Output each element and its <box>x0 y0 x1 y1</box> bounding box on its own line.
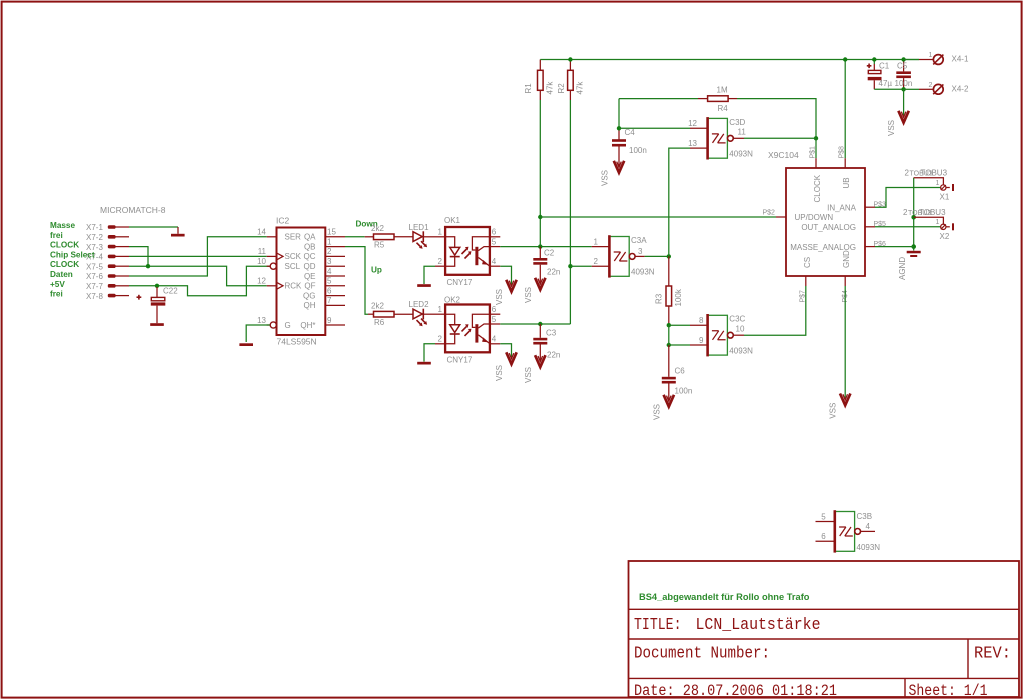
LED1 <box>409 223 436 249</box>
pin P$4 GND <box>844 276 846 286</box>
pin X7-8 <box>86 292 129 301</box>
right pins 15,1..7,9 <box>325 236 345 238</box>
svg-text:C3D: C3D <box>729 118 745 127</box>
svg-text:13: 13 <box>257 316 266 325</box>
junction X2 sleeve <box>911 215 916 220</box>
svg-text:P$7: P$7 <box>799 290 806 303</box>
supply VSS at C4 <box>601 161 625 186</box>
supply VSS at C2 <box>524 278 546 303</box>
ground at OK2 pin2 <box>417 344 435 365</box>
svg-text:4093N: 4093N <box>729 347 753 356</box>
pin X7-5 <box>86 262 129 271</box>
svg-text:5: 5 <box>492 315 497 324</box>
wire C3A pin2 <box>570 265 591 267</box>
svg-text:QD: QD <box>304 262 316 271</box>
pin P$3 IN_ANA <box>865 206 875 208</box>
svg-text:OK2: OK2 <box>444 295 461 304</box>
ground at IC2 pin13 <box>239 343 253 346</box>
svg-text:P$2: P$2 <box>763 209 776 216</box>
svg-text:Chip Select: Chip Select <box>50 250 95 259</box>
internal LED <box>445 237 455 248</box>
svg-text:X9C104: X9C104 <box>768 150 799 160</box>
svg-text:X2: X2 <box>940 232 950 241</box>
svg-text:P$1: P$1 <box>810 146 817 159</box>
svg-text:QF: QF <box>304 282 315 291</box>
svg-text:3: 3 <box>638 247 643 256</box>
svg-text:TOBU3: TOBU3 <box>921 169 948 178</box>
nand gate C3B 4093N <box>816 510 881 552</box>
svg-text:QC: QC <box>304 252 316 261</box>
svg-text:1: 1 <box>936 219 940 226</box>
svg-text:10: 10 <box>257 257 266 266</box>
ground at X7-1 <box>171 227 185 237</box>
resistor R5 2k2 <box>365 224 413 250</box>
svg-text:VSS: VSS <box>829 403 838 419</box>
svg-text:CS: CS <box>803 257 812 268</box>
ground at C22 <box>150 323 164 326</box>
svg-text:REV:: REV: <box>974 644 1011 663</box>
svg-text:VSS: VSS <box>652 404 661 420</box>
nand gate C3D 4093N <box>688 117 753 159</box>
svg-text:Date: 28.07.2006 01:18:21: Date: 28.07.2006 01:18:21 <box>634 682 837 700</box>
svg-text:1: 1 <box>936 180 940 187</box>
svg-text:10: 10 <box>736 325 745 334</box>
capacitor C2 22n <box>533 247 560 285</box>
svg-text:11: 11 <box>258 247 267 256</box>
wire OK1 pin4 to VSS <box>500 266 511 286</box>
svg-text:12: 12 <box>257 277 266 286</box>
svg-text:R4: R4 <box>718 104 729 113</box>
wire Masse X7-1 to ground <box>129 226 178 228</box>
svg-text:6: 6 <box>821 532 826 541</box>
capacitor C3 22n <box>533 324 560 362</box>
svg-text:100n: 100n <box>895 79 913 88</box>
svg-text:MICROMATCH-8: MICROMATCH-8 <box>100 205 166 215</box>
svg-text:BS4_abgewandelt für Rollo ohne: BS4_abgewandelt für Rollo ohne Trafo <box>639 592 810 602</box>
svg-text:74LS595N: 74LS595N <box>277 337 317 347</box>
svg-text:VSS: VSS <box>887 120 896 136</box>
svg-text:X7-7: X7-7 <box>86 282 103 291</box>
svg-text:QA: QA <box>304 233 316 242</box>
svg-text:X4-2: X4-2 <box>952 85 969 94</box>
svg-text:C4: C4 <box>625 128 636 137</box>
svg-text:1: 1 <box>438 305 443 314</box>
capacitor C5 100n <box>895 60 913 90</box>
LED2 <box>409 300 436 326</box>
supply VSS at X4 <box>887 111 909 136</box>
junction C22 tap <box>155 284 159 288</box>
svg-text:QE: QE <box>304 272 316 281</box>
wire R3 top lead <box>668 256 670 286</box>
svg-text:X7-2: X7-2 <box>86 233 103 242</box>
connector pin X4-1 <box>919 52 969 64</box>
svg-text:22n: 22n <box>547 351 560 360</box>
svg-text:47µ: 47µ <box>879 79 893 88</box>
svg-text:GND: GND <box>842 250 851 268</box>
svg-text:frei: frei <box>50 231 63 240</box>
junction R2 top <box>568 57 572 61</box>
junction C5 top <box>901 57 905 61</box>
pin 12 RCK <box>267 285 277 287</box>
svg-text:C2: C2 <box>544 248 555 257</box>
supply VSS at P$4 <box>829 394 851 419</box>
wire +5V X7-7 to IC2 pin 10 <box>129 266 270 296</box>
svg-text:R3: R3 <box>655 293 664 304</box>
wire OK1 pin5 to C3A pin1 <box>500 246 591 248</box>
pin P$7 CS <box>805 276 807 286</box>
wire IC2 pin13 to ground <box>246 325 270 342</box>
svg-text:X7-6: X7-6 <box>86 272 103 281</box>
resistor R6 2k2 <box>371 301 413 327</box>
junction C4/pin12 <box>617 126 621 130</box>
svg-text:R6: R6 <box>374 318 385 327</box>
wire pin12 C3D <box>619 127 690 129</box>
wire R2 net vertical <box>569 100 571 324</box>
pin X7-4 <box>86 253 129 262</box>
pin P$6 MASSE_ANALOG <box>865 246 875 248</box>
internal LED <box>445 314 455 325</box>
svg-text:QH: QH <box>304 301 316 310</box>
svg-text:2: 2 <box>438 335 443 344</box>
svg-text:8: 8 <box>699 316 704 325</box>
svg-text:IN_ANA: IN_ANA <box>827 203 857 212</box>
svg-text:OUT_ANALOG: OUT_ANALOG <box>801 223 856 232</box>
pin 13 G <box>267 324 271 326</box>
optocoupler OK2 CNY17 <box>435 295 500 364</box>
svg-text:4: 4 <box>492 335 497 344</box>
svg-text:100k: 100k <box>674 288 683 306</box>
connector X1 TOBU3 <box>905 169 955 202</box>
svg-text:7: 7 <box>327 296 332 305</box>
wire QA to R5 <box>345 236 365 238</box>
svg-text:LED1: LED1 <box>409 223 430 232</box>
svg-text:LED2: LED2 <box>409 300 430 309</box>
pin X7-2 <box>86 233 129 242</box>
wire C3A output <box>645 255 669 257</box>
wire C4 to R4 <box>619 98 698 100</box>
junction C3 top <box>538 322 542 326</box>
svg-text:4: 4 <box>492 257 497 266</box>
resistor R1 47k <box>524 60 555 101</box>
svg-text:VSS: VSS <box>601 170 610 186</box>
svg-text:VSS: VSS <box>524 287 533 303</box>
resistor R2 47k <box>557 60 585 101</box>
photon arrows <box>462 249 467 254</box>
capacitor C6 100n <box>662 345 692 401</box>
svg-text:C3C: C3C <box>729 315 745 324</box>
junction P$1 node <box>814 136 818 140</box>
pin P$2 UP/DOWN <box>776 216 786 218</box>
svg-text:CLOCK: CLOCK <box>50 241 79 250</box>
junction C3A out <box>667 254 671 258</box>
pin X7-1 <box>86 223 129 232</box>
capacitor C22 <box>137 286 179 323</box>
wire AGND vertical <box>913 178 915 251</box>
nand gate C3C 4093N <box>690 314 753 356</box>
pin X7-7 <box>86 282 129 291</box>
wire R1 net vertical <box>539 100 541 247</box>
svg-text:1: 1 <box>594 237 599 246</box>
svg-text:UP/DOWN: UP/DOWN <box>795 213 834 222</box>
svg-text:G: G <box>285 321 291 330</box>
connector pin X4-2 <box>919 82 969 94</box>
svg-text:1M: 1M <box>717 86 728 95</box>
resistor R3 100k <box>655 286 684 325</box>
svg-text:QH*: QH* <box>300 321 315 330</box>
svg-text:13: 13 <box>688 139 697 148</box>
svg-text:TOBU3: TOBU3 <box>919 208 946 217</box>
svg-text:2: 2 <box>327 247 332 256</box>
svg-text:Sheet: 1/1: Sheet: 1/1 <box>909 682 988 700</box>
svg-text:SCK: SCK <box>285 252 302 261</box>
svg-text:X1: X1 <box>940 193 950 202</box>
svg-text:3: 3 <box>327 257 332 266</box>
svg-text:frei: frei <box>50 290 63 299</box>
wire C3C pin8 <box>669 324 690 326</box>
svg-text:X4-1: X4-1 <box>952 55 969 64</box>
svg-text:6: 6 <box>327 286 332 295</box>
IC2 74LS595N <box>257 216 345 347</box>
svg-text:C1: C1 <box>879 62 890 71</box>
svg-text:4093N: 4093N <box>631 268 655 277</box>
junction X7-3/X7-5 <box>146 264 150 268</box>
svg-text:11: 11 <box>738 128 747 137</box>
svg-text:R1: R1 <box>524 83 533 94</box>
pin P$1 CLOCK <box>815 158 817 168</box>
photon arrows <box>462 326 467 331</box>
svg-text:AGND: AGND <box>898 257 907 280</box>
svg-text:RCK: RCK <box>285 282 303 291</box>
wire C3C output to P$7 <box>744 286 806 335</box>
wire P$5 to X2 <box>875 226 941 228</box>
connector X2 TOBU3 <box>903 208 954 241</box>
svg-text:C3A: C3A <box>631 236 647 245</box>
junction C3C pin8 <box>667 323 671 327</box>
wire R4 to P$1 node <box>737 99 816 139</box>
wire R3 to C6 node <box>668 325 670 345</box>
svg-text:4: 4 <box>866 522 871 531</box>
junction C1 top <box>872 57 876 61</box>
connector X7 MICROMATCH-8 <box>86 205 166 301</box>
supply VSS at OK1 pin4 <box>495 280 517 305</box>
wire P$3 to X1 <box>875 188 941 208</box>
svg-text:22n: 22n <box>547 268 560 277</box>
ground at OK1 pin2 <box>417 266 435 287</box>
svg-text:R5: R5 <box>374 241 385 250</box>
capacitor C1 47u polarized <box>867 60 893 90</box>
wire P$1 drop <box>815 138 817 158</box>
capacitor C4 100n <box>612 99 647 167</box>
svg-text:R2: R2 <box>557 83 566 94</box>
wire Chip Select X7-4 to IC2 pin 11 <box>129 255 267 257</box>
wire Daten X7-6 to IC2 pin 14 <box>129 237 267 276</box>
svg-text:6: 6 <box>492 305 497 314</box>
junction P$2 tap <box>538 215 542 219</box>
svg-text:2k2: 2k2 <box>371 224 384 233</box>
wire Up: R6 feed <box>368 313 374 315</box>
junction C3A pin2 <box>568 264 572 268</box>
svg-text:5: 5 <box>492 237 497 246</box>
svg-text:100n: 100n <box>675 387 693 396</box>
svg-text:Up: Up <box>371 266 382 275</box>
pin X7-3 <box>86 243 129 252</box>
wire P$8 to supply rail <box>844 60 846 159</box>
svg-text:QG: QG <box>303 291 315 300</box>
svg-text:X7-8: X7-8 <box>86 292 103 301</box>
wire top supply rail <box>540 59 919 61</box>
svg-text:Document Number:: Document Number: <box>634 644 770 663</box>
svg-text:TITLE:: TITLE: <box>634 616 682 635</box>
svg-text:2: 2 <box>929 82 933 89</box>
svg-text:+5V: +5V <box>50 280 65 289</box>
svg-text:LCN_Lautstärke: LCN_Lautstärke <box>696 616 821 635</box>
svg-text:VSS: VSS <box>495 365 504 381</box>
svg-text:2k2: 2k2 <box>371 301 384 310</box>
svg-text:9: 9 <box>327 316 332 325</box>
resistor R4 1M <box>698 86 737 113</box>
svg-text:UB: UB <box>842 177 851 188</box>
svg-text:C3B: C3B <box>857 512 873 521</box>
junction C2 top <box>538 244 542 248</box>
wire QB down to R6 <box>345 247 368 315</box>
svg-text:47k: 47k <box>546 81 555 95</box>
phototransistor <box>475 324 478 342</box>
svg-text:47k: 47k <box>576 81 585 95</box>
svg-text:CLOCK: CLOCK <box>50 260 79 269</box>
svg-text:1: 1 <box>438 228 443 237</box>
svg-text:C22: C22 <box>163 286 178 295</box>
svg-text:4: 4 <box>327 267 332 276</box>
nand gate C3A 4093N <box>592 235 655 277</box>
svg-text:IC2: IC2 <box>276 216 290 226</box>
svg-text:15: 15 <box>327 228 336 237</box>
optocoupler OK1 CNY17 <box>435 216 500 287</box>
svg-text:CNY17: CNY17 <box>447 356 473 365</box>
wire CLOCK X7-3 down to X7-5 <box>129 247 148 267</box>
svg-text:VSS: VSS <box>524 367 533 383</box>
supply VSS at C3 <box>524 355 546 383</box>
wire C3A out up to C3D pin13 <box>669 148 690 256</box>
svg-text:OK1: OK1 <box>444 216 461 225</box>
phototransistor <box>475 247 478 265</box>
svg-text:12: 12 <box>688 119 697 128</box>
IC X9C104 digital potentiometer <box>763 146 887 303</box>
pin 11 SCK <box>267 255 277 257</box>
svg-text:6: 6 <box>492 228 497 237</box>
wire CLOCK X7-5 to IC2 pin 12 <box>129 266 267 286</box>
pin 14 SER <box>267 236 277 238</box>
ground AGND <box>898 251 921 280</box>
svg-text:1: 1 <box>327 237 332 246</box>
wire to X4-2 <box>904 88 919 90</box>
pin X7-6 <box>86 272 129 281</box>
svg-text:14: 14 <box>257 228 266 237</box>
svg-text:X7-5: X7-5 <box>86 262 103 271</box>
svg-text:100n: 100n <box>629 146 647 155</box>
svg-text:CNY17: CNY17 <box>447 278 473 287</box>
svg-text:5: 5 <box>821 512 826 521</box>
wire C1 bottom to X4-2 node <box>874 88 903 90</box>
svg-text:1: 1 <box>929 52 933 59</box>
svg-text:4093N: 4093N <box>857 543 881 552</box>
svg-text:5: 5 <box>327 277 332 286</box>
wire OK2 pin4 to VSS <box>500 344 511 359</box>
junction X4-2 node <box>901 87 905 91</box>
svg-text:Masse: Masse <box>50 221 75 230</box>
junction C3C pin9 <box>667 343 671 347</box>
wire P$4 to VSS <box>844 286 846 400</box>
wire P$6 <box>875 246 914 248</box>
svg-text:VSS: VSS <box>495 289 504 305</box>
svg-text:4093N: 4093N <box>729 150 753 159</box>
svg-text:C6: C6 <box>675 367 686 376</box>
supply VSS at OK2 pin4 <box>495 352 517 381</box>
junction P$8 rail <box>843 57 847 61</box>
wire C3C pin9 <box>669 344 690 346</box>
svg-text:C5: C5 <box>897 62 908 71</box>
wire OK2 pin5 to R2 <box>500 323 570 325</box>
svg-text:X7-1: X7-1 <box>86 223 103 232</box>
svg-text:SER: SER <box>285 233 302 242</box>
svg-text:Daten: Daten <box>50 270 73 279</box>
svg-text:QB: QB <box>304 242 316 251</box>
svg-text:C3: C3 <box>546 328 557 337</box>
wire to X4-1 <box>904 59 919 61</box>
svg-text:2: 2 <box>438 257 443 266</box>
title block frame <box>629 561 1020 697</box>
svg-text:9: 9 <box>699 336 704 345</box>
wire X4-2 node to VSS <box>903 89 905 117</box>
svg-text:CLOCK: CLOCK <box>813 174 822 202</box>
pin P$8 UB <box>844 158 846 168</box>
wire P$2 UP/DOWN <box>540 216 776 218</box>
supply VSS at C6 <box>652 395 674 420</box>
pin 10 SCL <box>267 265 271 267</box>
pin P$5 OUT_ANALOG <box>865 226 875 228</box>
svg-text:SCL: SCL <box>285 262 301 271</box>
wire C3D output to P$1 node <box>744 137 816 139</box>
junction P$6 node <box>911 244 916 249</box>
svg-text:2: 2 <box>594 257 599 266</box>
